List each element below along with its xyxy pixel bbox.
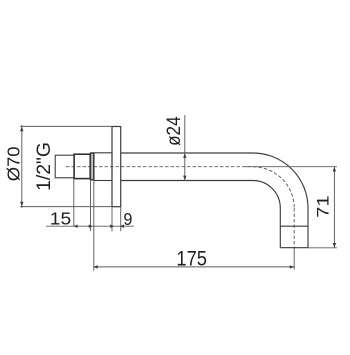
dim ø24 arrows: [183, 153, 186, 180]
dim 15 right extension: [90, 181, 92, 231]
dim ø70 top extension: [20, 125, 112, 127]
centerline vertical: [293, 208, 295, 251]
hex section: [74, 154, 90, 178]
svg-text:15: 15: [50, 209, 71, 229]
svg-text:175: 175: [176, 247, 207, 270]
dim 15 left extension: [73, 179, 75, 227]
dim 15 arrows: [73, 225, 93, 228]
centerline bend arc: [253, 167, 294, 208]
svg-text:ø24: ø24: [164, 116, 185, 146]
washer: [91, 153, 94, 180]
drop pipe right edge: [307, 208, 309, 248]
bend inner arc: [253, 181, 280, 209]
dim 71 top extension: [245, 166, 337, 168]
dim ø70 arrows: [20, 126, 23, 206]
svg-text:1/2"G: 1/2"G: [33, 142, 55, 191]
dim 175 right extension: [293, 250, 295, 270]
centerline horizontal: [66, 166, 253, 168]
cylinder: [94, 153, 112, 181]
svg-text:Ø70: Ø70: [3, 146, 23, 181]
svg-text:71: 71: [315, 195, 333, 217]
dim 9 left extension: [111, 207, 113, 231]
end cap joint: [280, 225, 308, 227]
dim 15-9 line: [46, 225, 134, 227]
bend outer arc: [253, 153, 308, 208]
svg-text:9: 9: [123, 209, 132, 229]
dim 9 right extension: [120, 207, 122, 231]
pipe bottom edge: [121, 180, 253, 182]
dim ø24 leader: [184, 115, 186, 181]
drop pipe left edge: [279, 208, 281, 248]
dim 71 line: [333, 167, 335, 248]
pipe end bottom: [280, 247, 308, 249]
dim ø70 bottom extension: [20, 206, 112, 208]
dim 175 arrows: [93, 265, 294, 268]
thread section: [55, 155, 74, 178]
dim 175 left extension: [93, 181, 95, 271]
flange ø70 side view: [112, 127, 121, 207]
dim 71 arrows: [333, 167, 336, 248]
dim 9 arrows: [110, 225, 124, 228]
pipe top edge: [121, 152, 253, 154]
dim 71 bottom extension: [308, 247, 337, 249]
dim 175 line: [93, 266, 294, 268]
dim ø70 line: [21, 125, 23, 208]
